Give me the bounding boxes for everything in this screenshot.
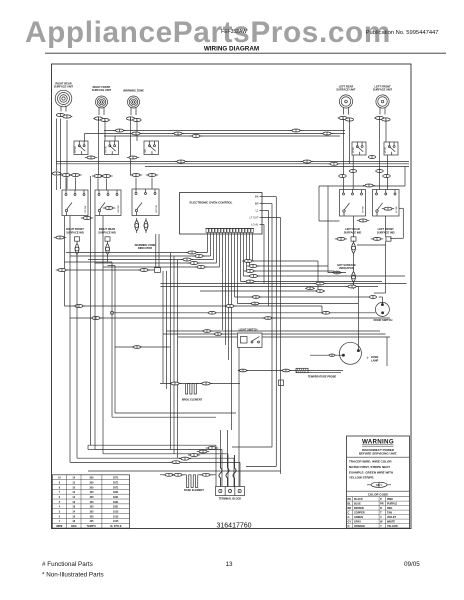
svg-text:PINK: PINK	[387, 498, 393, 501]
svg-text:WIRE: WIRE	[56, 525, 63, 528]
svg-text:INDICATOR: INDICATOR	[138, 246, 152, 250]
svg-text:LIGHT SWITCH: LIGHT SWITCH	[239, 328, 258, 332]
svg-text:BK: BK	[348, 498, 352, 501]
svg-text:GY: GY	[348, 521, 352, 524]
svg-text:LF SW: LF SW	[396, 207, 398, 213]
svg-text:BAKE ELEMENT: BAKE ELEMENT	[184, 489, 204, 492]
svg-text:RF SW: RF SW	[85, 206, 87, 213]
svg-text:BLUE: BLUE	[354, 503, 361, 506]
svg-text:YELLOW: YELLOW	[387, 525, 398, 528]
svg-text:200: 200	[89, 486, 94, 489]
svg-text:R: R	[380, 507, 382, 510]
svg-text:RED: RED	[387, 507, 392, 510]
svg-text:105: 105	[89, 515, 94, 518]
svg-text:TAN: TAN	[387, 512, 392, 515]
svg-text:SURFACE UNIT: SURFACE UNIT	[54, 85, 74, 89]
svg-text:# Functional Parts: # Functional Parts	[42, 561, 93, 568]
svg-text:200: 200	[89, 481, 94, 484]
svg-text:WHITE: WHITE	[387, 521, 395, 524]
svg-text:DOOR SWITCH: DOOR SWITCH	[374, 318, 393, 322]
svg-text:105: 105	[89, 510, 94, 513]
svg-text:3321: 3321	[113, 501, 119, 504]
svg-text:SURFACE UNIT: SURFACE UNIT	[373, 88, 393, 92]
svg-text:TERMINAL BLOCK: TERMINAL BLOCK	[219, 498, 242, 501]
svg-text:2071: 2071	[113, 481, 119, 484]
svg-text:150: 150	[89, 496, 94, 499]
svg-text:COPPER: COPPER	[354, 512, 365, 515]
svg-text:SURFACE IND: SURFACE IND	[344, 230, 362, 234]
svg-text:LO AL: LO AL	[251, 223, 259, 227]
svg-text:105: 105	[89, 520, 94, 523]
svg-text:EXAMPLE: GREEN WIRE WITH: EXAMPLE: GREEN WIRE WITH	[349, 470, 393, 474]
svg-text:150: 150	[89, 491, 94, 494]
svg-text:316417760: 316417760	[217, 523, 252, 530]
svg-text:1015: 1015	[113, 510, 119, 513]
svg-text:LAMP: LAMP	[371, 358, 379, 362]
svg-text:GREEN: GREEN	[354, 516, 363, 519]
svg-text:1015: 1015	[113, 515, 119, 518]
svg-text:BROWN: BROWN	[354, 507, 364, 510]
svg-text:TEMPERATURE PROBE: TEMPERATURE PROBE	[308, 376, 337, 379]
svg-text:200: 200	[89, 477, 94, 480]
svg-text:2671: 2671	[113, 486, 119, 489]
svg-text:SURFACE UNIT: SURFACE UNIT	[92, 88, 112, 92]
svg-text:AWG: AWG	[71, 525, 77, 528]
svg-text:O: O	[348, 525, 350, 528]
svg-text:150: 150	[89, 501, 94, 504]
svg-text:TRACER WIRE: WIRE COLOR: TRACER WIRE: WIRE COLOR	[349, 460, 392, 464]
svg-text:YELLOW STRIPE.: YELLOW STRIPE.	[349, 476, 375, 480]
svg-text:GRAY: GRAY	[354, 521, 361, 524]
svg-text:ORANGE: ORANGE	[354, 525, 365, 528]
svg-text:C: C	[348, 512, 350, 515]
svg-text:PURPLE: PURPLE	[387, 503, 397, 506]
svg-text:ELECTRONIC OVEN CONTROL: ELECTRONIC OVEN CONTROL	[190, 201, 233, 205]
svg-text:3321: 3321	[113, 506, 119, 509]
svg-text:BEFORE SERVICING UNIT.: BEFORE SERVICING UNIT.	[359, 452, 397, 456]
svg-text:NOTED FIRST, STRIPE NEXT.: NOTED FIRST, STRIPE NEXT.	[349, 465, 391, 469]
svg-text:RT FR: RT FR	[106, 146, 108, 153]
svg-text:WARMING ZONE: WARMING ZONE	[123, 89, 144, 93]
svg-text:INDICATOR: INDICATOR	[339, 266, 353, 270]
svg-text:* Non-Illustrated Parts: * Non-Illustrated Parts	[42, 572, 104, 579]
svg-text:G: G	[348, 516, 350, 519]
svg-text:WARNING: WARNING	[362, 439, 394, 446]
svg-text:PR: PR	[380, 503, 384, 506]
svg-text:OVEN: OVEN	[371, 355, 378, 359]
svg-text:LT OUT: LT OUT	[250, 216, 259, 220]
svg-text:2071: 2071	[113, 477, 119, 480]
svg-text:GN-Y: GN-Y	[376, 484, 382, 487]
svg-text:BR: BR	[348, 507, 352, 510]
svg-text:COLOR CODE: COLOR CODE	[368, 492, 388, 496]
svg-text:SURFACE IND: SURFACE IND	[66, 230, 84, 234]
svg-text:SURFACE IND: SURFACE IND	[98, 230, 116, 234]
svg-text:SURFACE UNIT: SURFACE UNIT	[336, 88, 356, 92]
svg-text:BLACK: BLACK	[354, 498, 363, 501]
svg-text:LT RR: LT RR	[353, 147, 355, 153]
svg-text:VIOLET: VIOLET	[387, 516, 397, 519]
svg-text:BL: BL	[348, 503, 352, 506]
svg-text:UL STYLE: UL STYLE	[110, 525, 122, 528]
svg-text:1015: 1015	[113, 520, 119, 523]
svg-text:WIRING DIAGRAM: WIRING DIAGRAM	[204, 46, 259, 53]
svg-text:TEMP°C: TEMP°C	[87, 525, 97, 528]
svg-text:WZ SW: WZ SW	[156, 205, 158, 212]
svg-text:BR: BR	[255, 202, 259, 206]
svg-text:BROIL ELEMENT: BROIL ELEMENT	[182, 399, 203, 402]
svg-text:3321: 3321	[113, 496, 119, 499]
svg-text:13: 13	[225, 561, 233, 568]
svg-text:BK: BK	[255, 195, 259, 199]
svg-text:RT RR: RT RR	[75, 146, 77, 153]
svg-text:LT FR: LT FR	[385, 147, 387, 153]
svg-text:3321: 3321	[113, 491, 119, 494]
svg-text:AppliancePartsPros.com: AppliancePartsPros.com	[25, 16, 391, 49]
svg-text:09/05: 09/05	[404, 561, 420, 568]
svg-text:150: 150	[89, 506, 94, 509]
svg-text:LR SW: LR SW	[363, 206, 365, 213]
svg-text:RR SW: RR SW	[118, 206, 120, 213]
